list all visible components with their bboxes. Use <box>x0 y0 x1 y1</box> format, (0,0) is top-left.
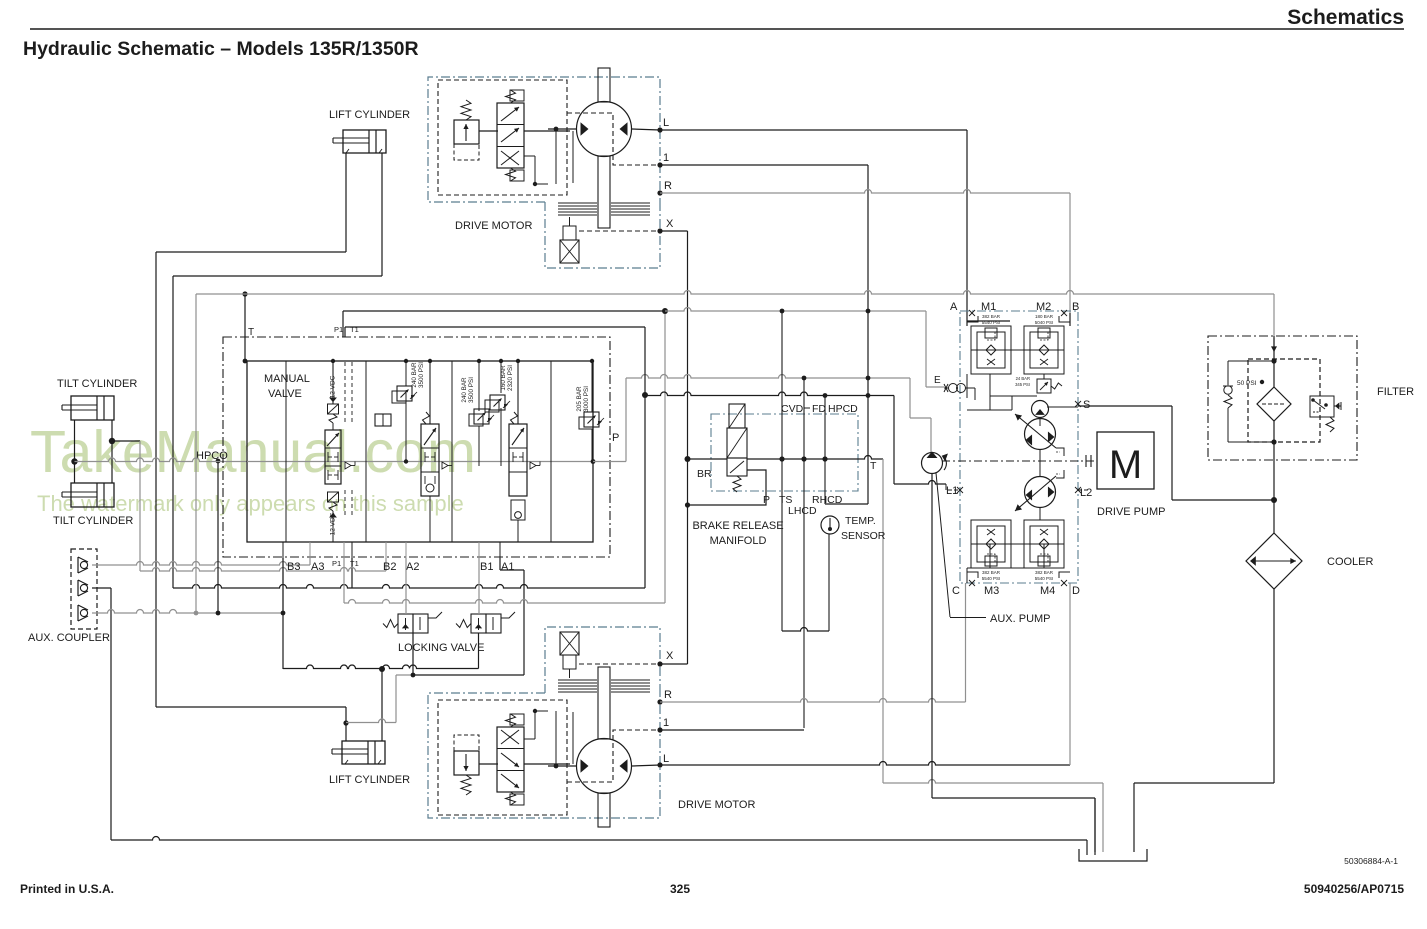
svg-text:M: M <box>1109 443 1142 487</box>
svg-text:240 BAR: 240 BAR <box>461 377 468 403</box>
svg-text:205 BAR: 205 BAR <box>576 386 583 412</box>
svg-text:Printed in U.S.A.: Printed in U.S.A. <box>20 882 114 896</box>
pump relief M2 <box>1024 326 1064 374</box>
wire HPCO gray rail <box>75 458 248 462</box>
svg-text:HPCD: HPCD <box>828 403 858 415</box>
wire P1 loop <box>342 311 344 337</box>
wire FD column <box>803 378 805 459</box>
svg-text:B2: B2 <box>383 561 396 573</box>
wire HPCD riser <box>824 396 826 460</box>
wire tilt rod to x140 <box>112 440 140 442</box>
valve pilot dashes <box>344 362 346 424</box>
svg-text:R: R <box>664 180 672 192</box>
relief drops <box>405 403 407 461</box>
node P1 x868 <box>866 309 871 314</box>
node R bottom <box>657 699 662 704</box>
svg-text:TILT CYLINDER: TILT CYLINDER <box>53 515 133 527</box>
cooler C1 <box>1246 533 1302 589</box>
wire T1 loop <box>344 327 346 337</box>
locking valve LV2 <box>456 620 471 628</box>
svg-text:S: S <box>1083 399 1090 411</box>
svg-text:DRIVE MOTOR: DRIVE MOTOR <box>455 220 532 232</box>
svg-text:Schematics: Schematics <box>1287 6 1404 29</box>
svg-text:P: P <box>612 432 619 444</box>
svg-text:M1: M1 <box>981 301 996 313</box>
svg-text:BR: BR <box>697 468 712 480</box>
svg-text:5040 PSI: 5040 PSI <box>1035 320 1054 325</box>
header rule <box>30 28 1404 30</box>
svg-text:M2: M2 <box>1036 301 1051 313</box>
wire R-C gray <box>660 699 966 702</box>
wire x196 gray <box>195 294 197 613</box>
brake manifold box <box>711 414 858 491</box>
filter drop <box>1273 336 1275 387</box>
pump arrow 1 <box>1015 414 1056 448</box>
svg-text:DRIVE PUMP: DRIVE PUMP <box>1097 506 1165 518</box>
wire RHCD column <box>824 459 826 504</box>
svg-text:FD: FD <box>812 403 826 415</box>
svg-text:240 BAR: 240 BAR <box>411 362 418 388</box>
wire T drop <box>244 294 246 361</box>
pump tri 1 <box>1026 435 1033 446</box>
node 1 bottom <box>657 727 662 732</box>
node L bottom <box>657 762 662 767</box>
node HPCD <box>822 456 827 461</box>
wire x156 to cyl bottom <box>156 706 346 708</box>
wire CVD up <box>781 311 783 459</box>
wire bottom tank run <box>111 837 1087 840</box>
svg-text:3500 PSI: 3500 PSI <box>418 362 425 388</box>
relief risers <box>405 361 407 386</box>
svg-text:COOLER: COOLER <box>1327 556 1374 568</box>
wire L-A <box>660 129 967 131</box>
svg-text:E: E <box>934 375 941 386</box>
tilt cylinder bottom <box>71 483 114 507</box>
svg-text:5540 PSI: 5540 PSI <box>1035 576 1054 581</box>
node x196 y613 <box>194 611 199 616</box>
svg-text:3000 PSI: 3000 PSI <box>583 386 590 412</box>
wire X top <box>660 230 688 232</box>
wire P exit <box>593 461 626 463</box>
pump inner mid lines <box>967 409 1012 411</box>
svg-text:LIFT CYLINDER: LIFT CYLINDER <box>329 774 410 786</box>
node P x868 <box>866 376 871 381</box>
svg-text:BRAKE RELEASE: BRAKE RELEASE <box>692 520 783 532</box>
svg-text:M4: M4 <box>1040 585 1055 597</box>
svg-text:T1: T1 <box>350 325 359 334</box>
manual valve inner box <box>247 361 593 542</box>
locking valve LV1 <box>383 620 398 628</box>
svg-text:382 BAR: 382 BAR <box>1035 570 1054 575</box>
svg-text:Hydraulic Schematic – Models 1: Hydraulic Schematic – Models 135R/1350R <box>23 38 419 60</box>
svg-text:The watermark only appears on: The watermark only appears on this sampl… <box>37 491 464 516</box>
svg-text:CVD: CVD <box>781 403 804 415</box>
svg-text:M3: M3 <box>984 585 999 597</box>
valve section 2 V2 <box>429 361 431 424</box>
svg-text:R: R <box>664 689 672 701</box>
L2 stub <box>1078 489 1090 491</box>
tank pipes <box>1086 840 1088 855</box>
wire BR rail <box>688 458 728 460</box>
node S filter join <box>1271 497 1277 503</box>
svg-text:T: T <box>870 460 877 472</box>
brake release valve V4 <box>727 428 747 458</box>
svg-text:A1: A1 <box>501 561 514 573</box>
wire X bottom <box>660 663 688 665</box>
relief R5 205BAR <box>579 417 593 429</box>
cvd-fd dash <box>804 407 810 409</box>
wire P rail gray <box>247 461 593 463</box>
aux coupler 1 <box>80 561 87 568</box>
svg-text:50940256/AP0715: 50940256/AP0715 <box>1304 882 1404 896</box>
wire y294 gray <box>196 291 1274 295</box>
pump servo 1 <box>1056 448 1064 456</box>
wire T drain gray <box>882 459 884 783</box>
wire x218 <box>217 461 219 613</box>
wire lift-bot gray link <box>346 719 396 723</box>
node CVD <box>779 456 784 461</box>
wire L1 drain link <box>893 396 895 485</box>
svg-text:MANUAL: MANUAL <box>264 373 310 385</box>
node filter bottom <box>1271 439 1276 444</box>
node LV1 bottom junction <box>411 673 416 678</box>
wire lift-top right <box>381 153 383 276</box>
wire TS column <box>781 459 783 631</box>
filter outer box <box>1208 336 1357 460</box>
svg-text:DRIVE MOTOR: DRIVE MOTOR <box>678 799 755 811</box>
relief R3 240BAR <box>469 414 483 426</box>
aux coupler box <box>71 549 97 629</box>
svg-text:L: L <box>663 117 669 129</box>
svg-text:1: 1 <box>663 152 669 164</box>
svg-text:L2: L2 <box>1080 487 1092 499</box>
svg-text:L: L <box>663 753 669 765</box>
wire y395 link <box>645 392 894 395</box>
tank T1 <box>1079 849 1147 861</box>
filter diamond F1 <box>1257 387 1291 421</box>
svg-text:50306884-A-1: 50306884-A-1 <box>1344 856 1398 866</box>
check box symbol <box>375 414 391 426</box>
svg-text:X: X <box>666 650 674 662</box>
svg-text:AUX. PUMP: AUX. PUMP <box>990 613 1051 625</box>
wire lift-top left <box>345 153 347 252</box>
svg-text:12 VDC: 12 VDC <box>330 375 337 398</box>
filter inner box <box>1248 359 1320 442</box>
svg-text:X: X <box>666 218 674 230</box>
wire B1-LV2 <box>478 558 480 614</box>
aux pump P1 <box>922 453 943 474</box>
wire L-D <box>660 762 1070 765</box>
pump corner brackets <box>967 316 978 322</box>
svg-text:A: A <box>950 301 958 313</box>
drive motor U2 (bottom, mirrored) <box>428 627 660 827</box>
aux coupler 3 <box>80 609 87 616</box>
svg-text:VALVE: VALVE <box>268 388 302 400</box>
wire tilt base ports <box>74 420 76 483</box>
wire lift-bot right drop <box>381 669 383 741</box>
svg-text:325: 325 <box>670 882 690 896</box>
node x218 y613 <box>216 611 221 616</box>
shaft coupler <box>1085 455 1087 467</box>
lift cylinder bottom <box>342 741 385 764</box>
svg-text:LHCD: LHCD <box>788 505 817 517</box>
pressure switch S2 <box>1310 396 1334 417</box>
svg-text:B: B <box>1072 301 1079 313</box>
wire P to aux pump <box>626 375 910 378</box>
wire M1M2 drop <box>989 374 991 410</box>
wire coupler1-A3 <box>92 562 310 566</box>
svg-text:B1: B1 <box>480 561 493 573</box>
pump port marks <box>969 310 975 316</box>
node X bottom <box>657 661 662 666</box>
E couplers <box>949 384 958 393</box>
pump arrow 2 <box>1015 476 1056 511</box>
wire X-X vertical <box>687 231 689 664</box>
node BR <box>685 456 691 462</box>
wire LV1 bottom stub <box>412 633 414 675</box>
svg-text:12 VDC: 12 VDC <box>330 512 337 535</box>
node tilt rod <box>109 438 115 444</box>
svg-text:L1: L1 <box>946 485 958 497</box>
node x218 HPCO <box>216 459 221 464</box>
svg-text:A3: A3 <box>311 561 324 573</box>
pump circle 1 <box>1025 419 1056 450</box>
wire A1 stub <box>499 558 501 570</box>
pump relief M4 <box>1024 520 1064 568</box>
wire 1-FD <box>660 729 804 731</box>
svg-text:LOCKING VALVE: LOCKING VALVE <box>398 642 484 654</box>
svg-text:D: D <box>1072 585 1080 597</box>
lift cylinder top <box>343 130 386 153</box>
svg-text:C: C <box>952 585 960 597</box>
relief R2 240BAR <box>392 391 406 403</box>
wire manifold P port <box>689 470 766 505</box>
svg-text:TEMP.: TEMP. <box>845 515 876 527</box>
svg-text:382 BAR: 382 BAR <box>982 314 1001 319</box>
pump B column <box>1069 313 1071 326</box>
pump vert mid <box>1039 417 1041 426</box>
node FD tap <box>802 376 807 381</box>
svg-text:2320 PSI: 2320 PSI <box>507 365 514 391</box>
cooler in <box>1273 500 1275 533</box>
svg-text:5540 PSI: 5540 PSI <box>982 576 1001 581</box>
node filter top <box>1271 358 1276 363</box>
svg-text:382 BAR: 382 BAR <box>982 570 1001 575</box>
node 1 top <box>657 162 662 167</box>
node CVD-P1 <box>780 309 785 314</box>
svg-text:AUX. COUPLER: AUX. COUPLER <box>28 632 110 644</box>
node lift bottom left <box>343 720 348 725</box>
svg-text:B3: B3 <box>287 561 300 573</box>
manual valve outer box <box>223 337 610 557</box>
wire aux suction <box>931 474 933 798</box>
filter bypass check <box>1228 360 1274 362</box>
wire R-B <box>660 190 1070 193</box>
svg-text:P1: P1 <box>334 325 343 334</box>
M box <box>1097 432 1154 489</box>
drive pump box <box>960 311 1078 583</box>
pump circle 2 <box>1025 477 1056 508</box>
wire A2-LV1 <box>405 558 407 614</box>
valve section 1 V1 <box>517 361 519 424</box>
svg-text:TakeManual.com: TakeManual.com <box>30 419 476 485</box>
charge relief <box>1037 379 1051 393</box>
wire coupler2 down <box>92 587 111 589</box>
inner verticals <box>285 361 287 542</box>
pump cross top <box>971 349 1064 351</box>
wire P1 gray east <box>665 308 926 312</box>
svg-text:345 PSI: 345 PSI <box>1015 382 1030 387</box>
node FD2 <box>801 456 806 461</box>
svg-text:180 BAR: 180 BAR <box>1035 314 1054 319</box>
node tilt base <box>71 458 77 464</box>
filter out <box>1273 421 1275 500</box>
pump A column <box>966 313 968 326</box>
node P rail exit <box>591 459 596 464</box>
node P1 x665 <box>662 308 668 314</box>
pump cross bottom <box>971 543 1064 545</box>
wire S line <box>1047 406 1078 408</box>
charge pump <box>1032 401 1049 418</box>
wire LV2 gray y675 <box>396 674 413 676</box>
svg-text:3500 PSI: 3500 PSI <box>468 377 475 403</box>
aux pump curve <box>944 457 946 470</box>
wire B2 gray y571 <box>140 568 386 571</box>
wire B3 drop <box>282 558 284 669</box>
drive motor U1 (top) <box>428 68 660 268</box>
wire x173 T1 run <box>173 585 352 589</box>
L1 stub <box>948 489 960 491</box>
node T top <box>242 291 247 296</box>
valve section 3 (tilt) V3 <box>332 361 334 404</box>
svg-text:1: 1 <box>663 717 669 729</box>
node y395 x645 <box>642 392 648 398</box>
svg-text:50 PSI: 50 PSI <box>1237 380 1257 387</box>
node R top <box>657 190 662 195</box>
svg-text:FILTER: FILTER <box>1377 386 1414 398</box>
pump tri 2 <box>1026 490 1033 501</box>
svg-text:T: T <box>248 327 254 338</box>
svg-text:RHCD: RHCD <box>812 494 843 506</box>
wire coupler3-B3 <box>92 610 283 613</box>
port stubs <box>282 542 284 558</box>
relief R4 160BAR <box>485 400 499 412</box>
pump servo 2 <box>1056 470 1064 478</box>
aux coupler 2 <box>80 584 87 591</box>
svg-text:T1: T1 <box>350 559 359 568</box>
node y669 x382 <box>379 666 385 672</box>
pump relief M3 <box>971 520 1011 568</box>
wire 1 line <box>660 164 868 166</box>
svg-text:A2: A2 <box>406 561 419 573</box>
svg-text:LIFT CYLINDER: LIFT CYLINDER <box>329 109 410 121</box>
wire RHCD west leg <box>825 503 868 505</box>
filter feed arrow <box>1273 338 1275 352</box>
cooler out <box>1273 589 1275 783</box>
svg-text:P1: P1 <box>332 559 341 568</box>
svg-text:SENSOR: SENSOR <box>841 530 886 542</box>
svg-text:24 BAR: 24 BAR <box>1016 376 1030 381</box>
node X top <box>657 228 662 233</box>
pump shaft line <box>942 460 1097 462</box>
tilt cylinder top <box>71 396 114 420</box>
svg-text:MANIFOLD: MANIFOLD <box>710 535 767 547</box>
node L top <box>657 127 662 132</box>
wire tilt rod ports <box>111 420 113 483</box>
wire A1 x524 run <box>523 570 525 675</box>
node B3 y613 <box>281 611 286 616</box>
wire D drop <box>1069 583 1071 765</box>
svg-text:TILT CYLINDER: TILT CYLINDER <box>57 378 137 390</box>
wire 1 vertical x868 <box>867 165 869 504</box>
pump relief M1 <box>971 326 1011 374</box>
node T inner <box>243 359 248 364</box>
pump inner lower <box>989 544 991 568</box>
aux pump pointer <box>936 473 950 617</box>
temp sensor TS1 <box>821 516 839 534</box>
wire y669 LV2 run <box>283 665 479 668</box>
